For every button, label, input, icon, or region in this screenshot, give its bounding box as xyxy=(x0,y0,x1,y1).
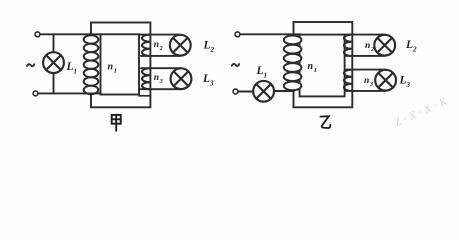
AC source terminal bottom (jia) xyxy=(33,91,38,96)
svg-text:2: 2 xyxy=(159,46,163,52)
AC source terminal top (jia) xyxy=(35,32,40,37)
wire: n2 bottom to lamp L2 (jia) xyxy=(141,55,180,57)
wire: bottom rail from source to lamp L1 (yi) xyxy=(238,91,253,93)
watermark ZXXK xyxy=(393,94,452,129)
AC source terminal top (yi) xyxy=(235,32,240,37)
AC source terminal bottom (yi) xyxy=(233,89,238,94)
svg-text:1: 1 xyxy=(74,68,78,76)
wire: top rail from source to transformer (yi) xyxy=(240,33,300,35)
wire: n2 top to lamp L2 (jia) xyxy=(140,34,181,36)
svg-text:n: n xyxy=(364,76,369,86)
svg-text:n: n xyxy=(365,41,370,51)
lamp L1 (yi) xyxy=(253,81,274,102)
wire: n2 top to lamp L2 (yi) xyxy=(345,34,385,36)
svg-text:n: n xyxy=(308,61,314,72)
label n2 (jia) xyxy=(154,40,163,52)
label n2 (yi) xyxy=(365,41,374,53)
transformer core outer rectangle (yi) xyxy=(294,22,353,107)
label L3 (yi) xyxy=(399,75,411,90)
secondary winding n3 (yi) xyxy=(344,70,352,91)
wire: n2 bottom to lamp L2 (yi) xyxy=(346,55,385,57)
label jia (Chinese character) xyxy=(112,115,121,131)
svg-text:L: L xyxy=(203,40,211,52)
lamp L2 (yi) xyxy=(374,35,395,56)
svg-text:L: L xyxy=(399,75,407,87)
label L2 (yi) xyxy=(405,39,417,54)
svg-text:3: 3 xyxy=(406,81,411,89)
wire: top rail from source to transformer (jia) xyxy=(40,33,101,35)
label n1 (jia) xyxy=(108,62,118,75)
label n3 (jia) xyxy=(154,73,163,85)
svg-text:3: 3 xyxy=(369,82,373,88)
lamp L2 (jia) xyxy=(170,35,191,56)
svg-text:2: 2 xyxy=(210,46,215,54)
primary winding n1 coil (jia) xyxy=(84,35,99,94)
lamp L3 (yi) xyxy=(375,70,396,91)
label L3 (jia) xyxy=(202,73,214,88)
label L1 (jia) xyxy=(66,61,78,76)
wire: n3 top to lamp L3 (yi) xyxy=(346,69,386,71)
wire: bottom rail continuation through coil (jia) xyxy=(83,92,101,94)
wire: lamp L1 to transformer (yi) xyxy=(274,90,294,92)
svg-text:L: L xyxy=(405,39,413,51)
svg-text:1: 1 xyxy=(114,68,117,75)
svg-text:1: 1 xyxy=(264,72,268,80)
wire: branch down to lamp L1 (jia) xyxy=(53,34,55,52)
transformer core inner window (yi) xyxy=(300,35,345,97)
wire: bottom rail from source to transformer (jia) xyxy=(38,92,91,94)
label yi (Chinese character) xyxy=(321,116,331,128)
lamp L1 (jia) xyxy=(43,52,64,73)
transformer core outer rectangle (jia) xyxy=(91,23,150,108)
wire: window-bottom step connector (jia) xyxy=(139,95,150,96)
svg-text:Z·X·X·K: Z·X·X·K xyxy=(393,94,452,129)
svg-text:n: n xyxy=(154,73,159,83)
wire: lamp L1 bottom to bottom rail (jia) xyxy=(53,73,55,93)
label L1 (yi) xyxy=(256,65,268,80)
secondary winding n2 (jia) xyxy=(142,35,150,56)
transformer core inner window (jia) xyxy=(101,34,140,94)
secondary winding n2 (yi) xyxy=(344,35,352,56)
svg-text:1: 1 xyxy=(314,67,317,74)
label n1 (yi) xyxy=(308,61,318,74)
wire: n3 bottom to lamp L3 (yi) xyxy=(345,90,386,92)
svg-text:L: L xyxy=(202,73,210,85)
AC source symbol ~ (jia) xyxy=(27,64,34,66)
wire: n3 bottom to lamp L3 (jia) xyxy=(140,88,182,90)
wire: n3 top to lamp L3 (jia) xyxy=(141,67,181,69)
svg-text:L: L xyxy=(256,65,264,77)
svg-text:2: 2 xyxy=(412,46,417,54)
svg-text:L: L xyxy=(66,61,74,73)
secondary winding n3 (jia) xyxy=(142,68,150,89)
label L2 (jia) xyxy=(203,40,215,55)
AC source symbol ~ (yi) xyxy=(232,64,239,66)
svg-text:3: 3 xyxy=(159,79,163,85)
svg-text:3: 3 xyxy=(209,80,214,88)
primary winding n1 coil (yi) xyxy=(284,36,302,91)
svg-text:2: 2 xyxy=(370,47,374,53)
lamp L3 (jia) xyxy=(171,68,192,89)
label n3 (yi) xyxy=(364,76,373,88)
svg-text:n: n xyxy=(154,40,159,50)
svg-text:n: n xyxy=(108,62,114,73)
